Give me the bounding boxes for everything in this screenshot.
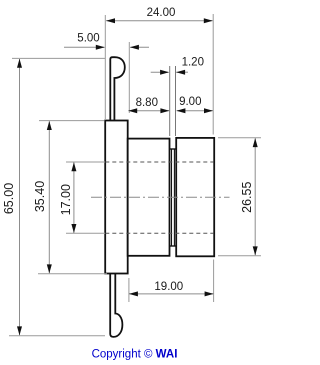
middle cylinder body: [128, 139, 170, 256]
dimension 65.00 bottom arrow: [17, 326, 22, 335]
extension line 17.00 top (y=162): [66, 161, 105, 163]
dimension 35.40 bottom arrow: [47, 264, 52, 273]
svg-text:8.80: 8.80: [136, 97, 158, 109]
dimension 26.55 top arrow: [253, 138, 258, 147]
neck groove inner line left: [171, 149, 173, 246]
extension line 26.55 bottom (y=255.7): [218, 255, 261, 257]
dimension 1.20 right tail line: [176, 71, 188, 73]
svg-text:1.20: 1.20: [182, 57, 204, 69]
neck groove inner line right: [173, 149, 175, 246]
svg-text:17.00: 17.00: [59, 184, 73, 215]
dimension 17.00 bottom arrow: [71, 224, 76, 233]
extension line neck right (x=175.5): [175, 66, 177, 136]
top terminal hook (P-shaped): [110, 57, 125, 120]
svg-text:26.55: 26.55: [240, 182, 254, 213]
extension line flange right face (x=129.3): [128, 42, 130, 113]
dimension 5.00 left tail line: [64, 46, 105, 48]
svg-text:9.00: 9.00: [179, 96, 201, 108]
dimension 8.80 left arrow: [128, 108, 137, 113]
right cylinder body: [176, 138, 214, 256]
extension line 65.00 bottom (y=335.7): [9, 335, 105, 337]
bottom terminal hook (J-shaped): [110, 274, 122, 337]
dimension 8.80 right arrow: [160, 108, 169, 113]
dimension 9.00 right arrow: [204, 108, 213, 113]
neck groove bottom cap: [170, 245, 177, 247]
dimension 9.00 left arrow: [176, 108, 185, 113]
dimension 24.00 right arrow: [204, 18, 213, 23]
dimension 5.00 right tail line: [130, 46, 149, 48]
flange body (left tall rectangle): [105, 121, 128, 274]
svg-text:5.00: 5.00: [77, 33, 99, 45]
extension line neck left (x=169.7): [169, 66, 171, 136]
svg-text:35.40: 35.40: [33, 181, 47, 212]
dimension 24.00 left arrow: [106, 18, 115, 23]
dimension 65.00 line: [19, 59, 21, 335]
hidden dashed line upper (17.00 top reference): [105, 161, 213, 163]
extension line 65.00 top (y=58.4): [12, 57, 105, 59]
svg-text:24.00: 24.00: [147, 7, 176, 19]
extension line 35.40 bottom (y=273.7): [38, 273, 107, 275]
dimension 9.00 line: [177, 110, 213, 112]
dimension 26.55 line: [254, 138, 256, 255]
extension line 26.55 top (y=137.7): [218, 137, 261, 139]
svg-text:65.00: 65.00: [2, 183, 16, 214]
dimension 1.20 left-pointing arrow: [176, 70, 185, 75]
neck groove top cap: [170, 148, 177, 150]
dimension 35.40 line: [48, 121, 50, 273]
extension line 19.00 right (x=213.6): [213, 260, 215, 303]
dimension 35.40 top arrow: [47, 121, 52, 130]
dimension 1.20 right-pointing arrow: [160, 70, 169, 75]
centerline (dash-dot axis): [91, 196, 230, 198]
dimension 65.00 top arrow: [17, 59, 22, 68]
extension line 35.40 top (y=120.6): [39, 120, 104, 122]
dimension 17.00 line: [73, 163, 75, 233]
dimension 19.00 right arrow: [205, 291, 214, 296]
extension line 19.00 left (x=128.9): [128, 278, 130, 302]
dimension 26.55 bottom arrow: [253, 246, 258, 255]
dimension 5.00 left-pointing arrow: [130, 45, 139, 50]
dimension 5.00 right-pointing arrow: [96, 45, 105, 50]
dimension 8.80 line: [128, 110, 169, 112]
dimension 19.00 line: [129, 293, 213, 295]
dimension 19.00 left arrow: [129, 291, 138, 296]
svg-text:19.00: 19.00: [154, 281, 183, 293]
svg-text:Copyright © WAI: Copyright © WAI: [92, 349, 178, 361]
extension line 17.00 bottom (y=233.3): [66, 232, 105, 234]
dimension 1.20 left tail line: [151, 71, 169, 73]
extension line left of part (x=105.3): [104, 15, 106, 119]
extension line right of part (x=213.2): [212, 14, 214, 135]
dimension 24.00 line: [106, 20, 212, 22]
hidden dashed line lower (17.00 bottom reference): [105, 232, 213, 234]
dimension 17.00 top arrow: [71, 162, 76, 171]
